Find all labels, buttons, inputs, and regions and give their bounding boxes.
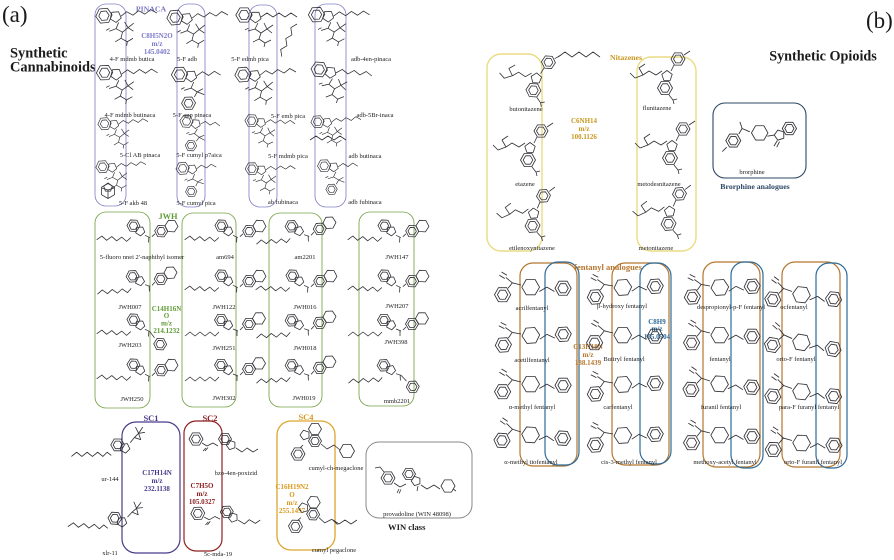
svg-text:m/z: m/z [579, 125, 590, 133]
svg-text:Nitazenes: Nitazenes [610, 53, 642, 62]
svg-text:C7H5O: C7H5O [191, 482, 215, 490]
svg-text:5-F cumyl p7aica: 5-F cumyl p7aica [176, 152, 222, 159]
svg-text:β-hydroxy fentanyl: β-hydroxy fentanyl [597, 303, 647, 310]
svg-text:JWH203: JWH203 [118, 342, 141, 349]
svg-text:232.1138: 232.1138 [144, 485, 170, 493]
svg-text:SC1: SC1 [143, 413, 158, 423]
svg-text:C16H19N2: C16H19N2 [275, 483, 309, 491]
svg-text:C17H14N: C17H14N [142, 469, 172, 477]
svg-text:furanil fentanyl: furanil fentanyl [701, 404, 741, 411]
svg-text:C8H5N2O: C8H5N2O [141, 32, 173, 40]
svg-text:WIN class: WIN class [388, 522, 426, 532]
svg-text:JWH007: JWH007 [118, 304, 142, 311]
svg-text:methoxy-acetyl fentanyl: methoxy-acetyl fentanyl [693, 459, 757, 466]
svg-text:JWH019: JWH019 [292, 395, 315, 402]
svg-text:despropionyl-p-F fentanyl: despropionyl-p-F fentanyl [697, 304, 765, 311]
svg-text:m/z: m/z [583, 351, 594, 359]
svg-text:SC4: SC4 [298, 412, 314, 422]
svg-text:cumyl pegaclone: cumyl pegaclone [312, 547, 356, 554]
svg-text:JWH207: JWH207 [385, 303, 409, 310]
svg-text:orto-F fentanyl: orto-F fentanyl [776, 356, 815, 363]
svg-text:JWH302: JWH302 [212, 395, 235, 402]
svg-text:Butiryl fentanyl: Butiryl fentanyl [603, 356, 645, 363]
svg-text:Synthetic Opioids: Synthetic Opioids [769, 49, 877, 65]
svg-text:ocfentanyl: ocfentanyl [780, 304, 808, 311]
svg-text:acrilfentanyl: acrilfentanyl [516, 305, 549, 312]
svg-text:α-methyl fentanyl: α-methyl fentanyl [509, 404, 556, 411]
svg-text:etilenoxynitazene: etilenoxynitazene [509, 245, 555, 252]
svg-text:orto-F furanil fentanyl: orto-F furanil fentanyl [784, 459, 842, 466]
svg-text:214.1232: 214.1232 [153, 327, 180, 335]
svg-text:5-F akb 48: 5-F akb 48 [119, 200, 147, 207]
svg-text:ur-144: ur-144 [101, 476, 119, 483]
svg-text:JWH250: JWH250 [120, 396, 143, 403]
svg-text:mmb2201: mmb2201 [384, 398, 410, 405]
svg-text:188.1439: 188.1439 [575, 359, 602, 367]
svg-text:5-F cumyl pica: 5-F cumyl pica [176, 200, 215, 207]
svg-text:5-F app pinaca: 5-F app pinaca [173, 112, 212, 119]
svg-text:α-methyl tiofentanyl: α-methyl tiofentanyl [504, 459, 558, 466]
svg-text:100.1126: 100.1126 [571, 133, 597, 141]
svg-text:m/z: m/z [287, 499, 298, 507]
svg-text:carfentanyl: carfentanyl [603, 404, 632, 411]
svg-text:5-F emb pica: 5-F emb pica [271, 113, 305, 120]
svg-text:adb-4en-pinaca: adb-4en-pinaca [351, 56, 391, 63]
svg-text:m/z: m/z [152, 40, 163, 48]
svg-text:SC2: SC2 [202, 413, 217, 423]
svg-text:metonitazene: metonitazene [639, 245, 674, 252]
svg-text:5-Cl AB pinaca: 5-Cl AB pinaca [120, 152, 161, 159]
svg-text:fentanyl analogues: fentanyl analogues [574, 262, 642, 272]
svg-text:PINACA: PINACA [136, 5, 167, 14]
svg-text:bzo-4en-poxizid: bzo-4en-poxizid [215, 470, 258, 477]
svg-text:adb-5Br-inaca: adb-5Br-inaca [356, 112, 393, 119]
svg-text:(a): (a) [2, 2, 28, 27]
svg-text:ab fubinaca: ab fubinaca [268, 199, 298, 206]
svg-text:JWH: JWH [158, 212, 178, 221]
svg-text:cis-3-methyl fentanyl: cis-3-methyl fentanyl [601, 459, 657, 466]
svg-text:JWH016: JWH016 [293, 304, 317, 311]
svg-text:5-F adb: 5-F adb [177, 56, 197, 63]
svg-text:145.0402: 145.0402 [144, 48, 171, 56]
svg-text:m/z: m/z [152, 477, 163, 485]
svg-text:5-F mdmb pica: 5-F mdmb pica [268, 153, 308, 160]
svg-text:flunitazene: flunitazene [643, 105, 672, 112]
svg-text:JWH018: JWH018 [293, 345, 316, 352]
svg-text:4-F mdmb butinaca: 4-F mdmb butinaca [105, 112, 156, 119]
svg-text:255.1497: 255.1497 [279, 507, 306, 515]
svg-text:5-F edmb pica: 5-F edmb pica [231, 56, 269, 63]
svg-text:JWH147: JWH147 [385, 254, 409, 261]
svg-text:4-F mdmb butica: 4-F mdmb butica [110, 56, 155, 63]
svg-text:adb butinaca: adb butinaca [348, 153, 381, 160]
svg-text:O: O [289, 491, 295, 499]
svg-text:am694: am694 [216, 254, 234, 261]
svg-text:metodesnitazene: metodesnitazene [637, 181, 680, 188]
svg-text:Cannabinoids: Cannabinoids [10, 60, 96, 76]
svg-text:cumyl-ch-megaclone: cumyl-ch-megaclone [309, 465, 364, 472]
svg-text:5-fluoro nnei 2'-naphthyl isom: 5-fluoro nnei 2'-naphthyl isomer [100, 254, 185, 261]
svg-text:(b): (b) [866, 8, 893, 33]
svg-text:JWH122: JWH122 [212, 304, 235, 311]
svg-text:para-F furanyl fentanyl: para-F furanyl fentanyl [779, 404, 839, 411]
svg-text:5c-mda-19: 5c-mda-19 [204, 551, 232, 558]
svg-text:xlr-11: xlr-11 [102, 550, 118, 557]
svg-text:etazene: etazene [515, 181, 535, 188]
svg-text:provadoline (WIN 48098): provadoline (WIN 48098) [383, 511, 451, 518]
svg-text:acetilfentanyl: acetilfentanyl [514, 357, 550, 364]
svg-text:butonitazene: butonitazene [509, 106, 542, 113]
svg-text:m/z: m/z [197, 490, 208, 498]
svg-text:105.0327: 105.0327 [189, 498, 216, 506]
svg-text:brorphine: brorphine [739, 169, 764, 176]
svg-text:fentanyl: fentanyl [709, 356, 730, 363]
svg-text:am2201: am2201 [295, 254, 316, 261]
svg-text:Brorphine analogues: Brorphine analogues [720, 182, 789, 191]
svg-text:JWH398: JWH398 [384, 339, 407, 346]
svg-text:C6NH14: C6NH14 [571, 117, 598, 125]
svg-text:adb fubinaca: adb fubinaca [348, 199, 382, 206]
svg-text:JWH251: JWH251 [212, 345, 235, 352]
